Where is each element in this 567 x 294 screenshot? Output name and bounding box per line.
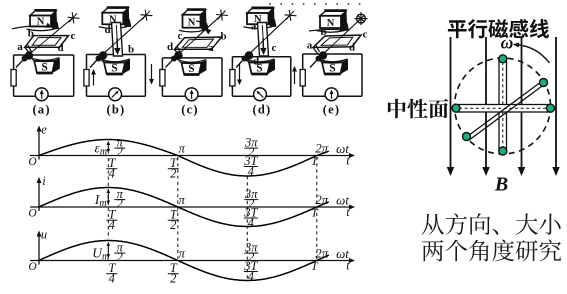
svg-text:a: a	[17, 41, 23, 53]
svg-text:4: 4	[109, 167, 115, 181]
svg-text:i: i	[42, 174, 46, 188]
svg-text:B: B	[494, 174, 508, 196]
svg-text:O: O	[28, 261, 37, 273]
svg-text:π: π	[179, 142, 186, 156]
svg-text:c: c	[178, 30, 183, 42]
svg-text:u: u	[41, 228, 47, 242]
svg-text:b: b	[128, 44, 134, 56]
svg-text:4: 4	[248, 164, 254, 178]
svg-text:b: b	[320, 26, 326, 38]
svg-text:d: d	[167, 41, 173, 53]
svg-text:(e): (e)	[323, 103, 340, 117]
svg-text:(a): (a)	[33, 103, 51, 117]
svg-text:4: 4	[248, 269, 254, 283]
svg-text:4: 4	[109, 272, 115, 286]
svg-text:c: c	[272, 42, 277, 54]
svg-text:a: a	[307, 40, 313, 52]
svg-text:d: d	[349, 42, 355, 54]
svg-text:4: 4	[109, 218, 115, 232]
svg-text:a: a	[208, 42, 214, 54]
svg-text:O: O	[28, 156, 37, 168]
svg-text:(d): (d)	[253, 103, 272, 117]
svg-text:S: S	[188, 63, 194, 75]
svg-text:π: π	[179, 247, 186, 261]
svg-text:S: S	[41, 62, 47, 74]
svg-text:N: N	[188, 18, 196, 29]
svg-text:a: a	[251, 21, 257, 33]
svg-text:2: 2	[117, 250, 123, 264]
svg-text:S: S	[111, 63, 117, 75]
svg-text:b: b	[220, 30, 226, 42]
svg-text:b: b	[28, 27, 34, 39]
svg-text:O: O	[28, 208, 37, 220]
svg-text:2: 2	[170, 167, 176, 181]
svg-text:ω: ω	[501, 32, 514, 52]
svg-text:d: d	[57, 42, 63, 54]
svg-text:2: 2	[117, 197, 123, 211]
svg-text:2: 2	[170, 272, 176, 286]
svg-text:d: d	[253, 56, 259, 68]
svg-text:(c): (c)	[181, 103, 198, 117]
svg-text:c: c	[363, 28, 368, 40]
svg-text:e: e	[41, 123, 47, 137]
svg-text:N: N	[327, 18, 335, 29]
svg-text:c: c	[71, 30, 76, 42]
svg-text:t: t	[346, 259, 350, 273]
svg-text:4: 4	[248, 216, 254, 230]
svg-text:S: S	[329, 63, 335, 75]
svg-text:π: π	[179, 193, 186, 207]
svg-text:(b): (b)	[107, 103, 126, 117]
svg-text:t: t	[346, 205, 350, 219]
svg-text:t: t	[346, 154, 350, 168]
svg-text:d: d	[104, 24, 110, 36]
svg-text:2: 2	[170, 218, 176, 232]
svg-text:2: 2	[117, 145, 123, 159]
